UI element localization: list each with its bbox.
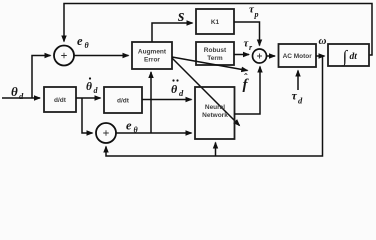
- wire riser from e line up into Augment Error bottom: [150, 72, 152, 133]
- svg-text:AC Motor: AC Motor: [283, 53, 313, 60]
- wire d/dt1 output to d/dt2: [76, 97, 101, 99]
- wire omega feedback down and along bottom into S2: [106, 56, 323, 156]
- svg-text:p: p: [254, 10, 259, 19]
- svg-text:Augment: Augment: [138, 49, 167, 56]
- wire S1 output to Augment Error: [74, 55, 128, 57]
- block Neural Network: [195, 87, 235, 139]
- svg-text:θ: θ: [86, 81, 92, 93]
- svg-text:d/dt: d/dt: [54, 97, 67, 104]
- wire tau_d disturbance into AC Motor bottom: [297, 71, 299, 91]
- block Robust Term: [196, 42, 234, 65]
- label e_theta top: [77, 34, 90, 50]
- svg-text:θ: θ: [85, 41, 90, 50]
- block integrator: [328, 44, 369, 67]
- node junction on theta_d line at x=32: [32, 56, 51, 99]
- svg-text:Network: Network: [202, 112, 228, 119]
- svg-text:e: e: [126, 119, 132, 133]
- label theta_ddot_d: [171, 79, 184, 98]
- wire branch from bottom line up into Neural Network bottom: [215, 143, 217, 157]
- svg-text:θ: θ: [171, 82, 178, 96]
- block K1: [196, 9, 234, 34]
- wire K1 output tau_p down into summing junction S3: [234, 22, 260, 46]
- wire diagonal from Augment Error through Neural Network: [172, 58, 240, 126]
- svg-text:ω: ω: [319, 35, 327, 47]
- label theta_dot_d: [86, 77, 99, 95]
- summing junction S3: [253, 49, 267, 63]
- wire branch down from theta_dot line to summing junction S2: [82, 98, 93, 133]
- block d/dt 2: [104, 87, 142, 113]
- wire feedback from integrator top loop into summing junction 1: [64, 4, 372, 56]
- block d/dt 1: [44, 87, 76, 112]
- block AC Motor: [279, 44, 317, 67]
- label omega: [319, 35, 327, 47]
- wire theta_d input to d/dt1: [2, 97, 40, 99]
- svg-text:d: d: [298, 96, 303, 106]
- svg-text:e: e: [77, 34, 83, 48]
- label s: [177, 6, 184, 25]
- svg-text:d: d: [179, 88, 184, 98]
- svg-text:Term: Term: [207, 55, 223, 62]
- wire d/dt2 output to Neural Network: [142, 99, 192, 101]
- svg-text:d: d: [94, 86, 99, 95]
- svg-text:d: d: [19, 91, 24, 101]
- svg-text:Neural: Neural: [205, 104, 225, 111]
- wire AC Motor output omega to integrator: [316, 55, 325, 57]
- label f_hat: [243, 72, 250, 93]
- svg-text:dt: dt: [350, 52, 358, 62]
- svg-text:K1: K1: [211, 19, 220, 26]
- wire s from Augment Error top to K1: [152, 23, 193, 42]
- svg-text:Robust: Robust: [204, 47, 227, 54]
- label tau_r: [244, 38, 254, 53]
- wire diagonal from Augment Error to f_hat arrow: [172, 57, 248, 71]
- svg-text:ˆ: ˆ: [244, 72, 248, 84]
- label e_theta bottom: [126, 119, 139, 135]
- block Augment Error: [132, 42, 172, 69]
- wire Neural Network f_hat output up into S3: [235, 67, 261, 115]
- summing junction S1: [54, 46, 74, 66]
- wire Robust Term output tau_r to S3: [234, 54, 249, 56]
- label tau_p: [249, 4, 259, 20]
- label theta_d: [11, 84, 24, 101]
- wire S2 output to Neural Network: [116, 132, 191, 134]
- svg-text:r: r: [249, 43, 253, 52]
- summing junction S2: [96, 123, 116, 143]
- svg-text:s: s: [177, 6, 184, 25]
- svg-text:τ: τ: [292, 89, 298, 103]
- svg-text:d/dt: d/dt: [117, 98, 130, 105]
- label tau_d: [292, 89, 304, 106]
- svg-text:Error: Error: [144, 57, 160, 64]
- svg-text:θ: θ: [11, 84, 18, 99]
- wire S3 output to AC Motor: [267, 55, 276, 57]
